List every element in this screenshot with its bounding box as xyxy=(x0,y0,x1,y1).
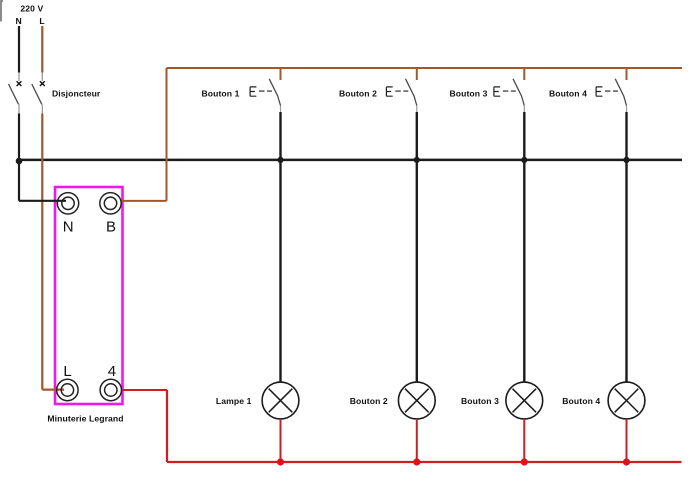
svg-text:Disjoncteur: Disjoncteur xyxy=(52,89,101,99)
svg-text:Bouton 3: Bouton 3 xyxy=(461,396,499,406)
svg-text:B: B xyxy=(106,218,116,235)
svg-text:Minuterie Legrand: Minuterie Legrand xyxy=(47,414,123,424)
svg-text:N: N xyxy=(15,16,21,26)
svg-text:Bouton 3: Bouton 3 xyxy=(449,88,487,98)
svg-text:220 V: 220 V xyxy=(20,4,43,14)
svg-text:Bouton 2: Bouton 2 xyxy=(339,88,377,98)
svg-text:L: L xyxy=(63,363,71,380)
svg-text:4: 4 xyxy=(108,363,116,380)
svg-text:Bouton 2: Bouton 2 xyxy=(350,396,388,406)
svg-text:Bouton 4: Bouton 4 xyxy=(562,396,600,406)
svg-text:L: L xyxy=(39,16,44,26)
svg-text:Lampe 1: Lampe 1 xyxy=(216,396,252,406)
svg-text:N: N xyxy=(63,218,74,235)
svg-text:Bouton 1: Bouton 1 xyxy=(201,88,239,98)
svg-text:Bouton 4: Bouton 4 xyxy=(549,88,587,98)
